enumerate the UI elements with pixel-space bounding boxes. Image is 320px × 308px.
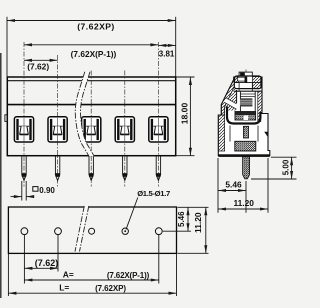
svg-text:(7.62XP): (7.62XP) — [95, 284, 126, 293]
dimension line (7.62) — [24, 59, 58, 61]
left edge notch — [5, 115, 7, 122]
left wall (hatched) — [218, 115, 224, 151]
svg-text:(7.62X(P-1)): (7.62X(P-1)) — [71, 49, 117, 59]
pcb outline — [8, 207, 176, 253]
svg-text:11.20: 11.20 — [233, 198, 254, 208]
screw head — [234, 76, 261, 89]
break line left (front) — [75, 72, 89, 156]
svg-text:3.81: 3.81 — [159, 49, 175, 58]
terminal port 4 — [115, 117, 134, 142]
side body outline — [218, 77, 269, 156]
svg-text:5.00: 5.00 — [281, 159, 290, 175]
front body ledge line — [7, 104, 175, 106]
head bottom line — [239, 88, 252, 90]
screw cavity left wall — [236, 90, 238, 103]
arrow (7.62X(P-1)) right — [150, 43, 158, 46]
break line left (bottom view) — [75, 206, 84, 252]
dimension 5.46 (side bottom) — [218, 158, 246, 213]
arrow (7.62X(P-1)) left — [24, 43, 32, 46]
arrow (7.62XP) right — [168, 19, 176, 22]
front body outline — [7, 77, 175, 156]
centerline terminal 4 — [124, 71, 126, 187]
pin 1 — [22, 156, 26, 181]
chamfer wall (hatched) — [221, 80, 236, 116]
svg-text:L=: L= — [59, 282, 69, 292]
svg-text:(7.62): (7.62) — [35, 258, 59, 268]
wire entry channel edges — [224, 102, 236, 109]
svg-text:5.46: 5.46 — [225, 179, 242, 189]
page left edge line — [0, 53, 2, 298]
dimension line L= — [8, 292, 176, 294]
screw shaft sides — [239, 91, 241, 111]
arrow (7.62) right — [50, 59, 58, 62]
svg-text:(7.62XP): (7.62XP) — [77, 22, 115, 32]
body bottom thick line — [218, 154, 269, 157]
centerline terminal 3 — [90, 71, 92, 187]
head cylinder sides — [238, 83, 240, 92]
svg-text:11.20: 11.20 — [193, 212, 203, 233]
dimension 5.00 (pin length) — [251, 157, 297, 179]
hole 2 — [55, 228, 62, 235]
right wall band (hatched) — [258, 91, 262, 121]
svg-text:5.46: 5.46 — [177, 211, 186, 227]
hole 3 — [89, 228, 95, 234]
dimension line (7.62XP) — [7, 20, 176, 22]
pin 4 — [123, 156, 127, 181]
dimension line 3.81 — [158, 44, 175, 46]
terminal port 5 — [149, 117, 168, 142]
lower metal block (hatched) — [235, 141, 256, 151]
left pocket hatch — [225, 85, 236, 111]
arrow 3.81 right — [168, 44, 176, 47]
chamber side walls — [229, 126, 231, 142]
terminal port 3 — [82, 117, 101, 142]
screw threaded shank (dense) — [240, 98, 252, 106]
arrow 3.81 left — [158, 44, 166, 47]
dimension line (7.62) bottom — [24, 267, 58, 269]
ext line right of (7.62XP) — [175, 17, 177, 77]
pin 2 — [55, 156, 59, 181]
leader line hole diameter — [126, 198, 138, 230]
pin 3 — [89, 156, 93, 181]
head hatch right — [253, 77, 261, 89]
svg-text:(7.62X(P-1)): (7.62X(P-1)) — [107, 271, 150, 280]
svg-text:Ø1.5-Ø1.7: Ø1.5-Ø1.7 — [137, 189, 170, 198]
head hatch left — [235, 77, 239, 82]
head mid line — [235, 82, 262, 84]
centerline terminal 2 — [57, 55, 59, 187]
dimension 11.20 (side bottom) — [218, 158, 268, 213]
solder pin (hatched) — [243, 157, 250, 179]
bottom dims extension lines — [8, 235, 176, 296]
dimension 11.20 (pcb right) — [178, 207, 209, 253]
dimension line A= — [24, 279, 158, 281]
break line right (front) — [80, 72, 94, 156]
break line right (bottom view) — [80, 206, 89, 252]
centerline terminal 5 — [157, 42, 159, 187]
screw slot tab — [239, 72, 252, 76]
dimension line (7.62X(P-1)) — [24, 44, 158, 46]
svg-text:A=: A= — [63, 269, 74, 279]
clamp nut block (hatched dark) — [235, 112, 256, 121]
terminal port 2 — [48, 117, 67, 142]
latch triangle right — [264, 132, 268, 137]
body top surface line — [234, 90, 262, 92]
dimension 5.46 (pcb right) — [163, 207, 209, 231]
ext line left of (7.62XP) — [6, 17, 8, 77]
svg-text:0.90: 0.90 — [39, 186, 55, 195]
dimension 18.00 — [177, 77, 195, 156]
clamp yoke (thick U) — [227, 107, 260, 124]
arrow (7.62) left — [24, 59, 32, 62]
hole 5 — [155, 228, 162, 235]
break mask bottom view — [75, 206, 89, 252]
hole 1 — [21, 228, 28, 235]
side view centerline — [245, 70, 247, 142]
svg-text:(7.62): (7.62) — [27, 62, 49, 72]
hole 4 — [122, 228, 128, 234]
head slot depth mark — [245, 77, 248, 83]
dimension square 0.90 pin — [11, 181, 35, 201]
terminal port 1 — [14, 117, 33, 142]
screw thread lines — [240, 93, 255, 95]
pin embedded in body (hatched) — [243, 126, 248, 138]
break mask front view — [75, 72, 94, 156]
wire entry channel (white) — [224, 98, 236, 110]
head slot cavity — [238, 77, 246, 81]
arrow (7.62XP) left — [7, 19, 15, 22]
svg-text:18.00: 18.00 — [179, 103, 189, 125]
pin 5 — [156, 156, 160, 181]
centerline terminal 1 — [23, 42, 25, 187]
front body top inner line — [7, 80, 175, 82]
screw slot black mark — [240, 73, 245, 78]
